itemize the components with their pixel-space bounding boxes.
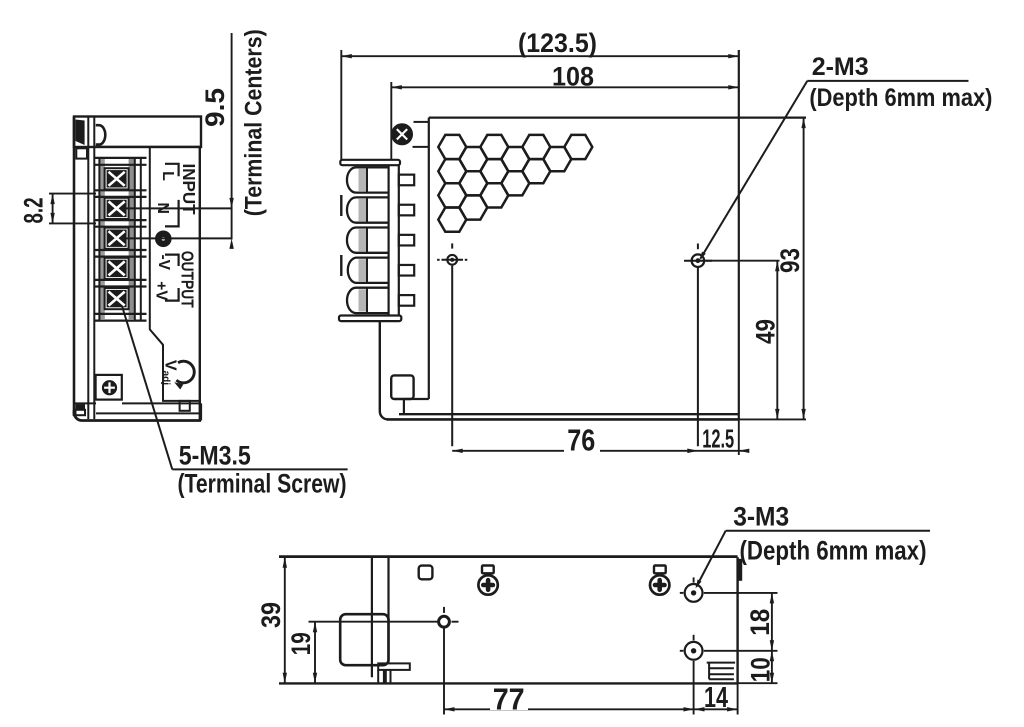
- front view top cap bottom edge: [94, 146, 201, 148]
- bottom view small D hole: [419, 566, 433, 580]
- svg-text:OUTPUT: OUTPUT: [178, 251, 198, 308]
- bottom view screw 2 tab: [654, 566, 666, 574]
- svg-text:(Terminal Centers): (Terminal Centers): [240, 29, 267, 216]
- dimension 19 line: [313, 622, 317, 684]
- dimension 10 line: [770, 651, 774, 683]
- terminal barrel 4 (side view): [348, 258, 389, 283]
- bottom view bottom-right mounting hole (M3): [680, 635, 778, 715]
- dimension text 76: [564, 426, 600, 453]
- block base verticals: [388, 165, 390, 316]
- front view small box under clip: [76, 148, 87, 158]
- bottom view screw 1: [478, 575, 497, 594]
- bracket for L: [165, 164, 179, 176]
- vent hexagon col4 row1: [501, 147, 529, 171]
- bottom view hatched vent slot: [707, 663, 735, 680]
- svg-text:76: 76: [567, 422, 595, 457]
- front label plate outline: [150, 148, 200, 401]
- honeycomb vent pattern: [438, 135, 592, 232]
- terminal block bottom plate: [94, 313, 146, 315]
- svg-text:9.5: 9.5: [200, 88, 230, 127]
- terminal block (bottom view): [340, 614, 388, 665]
- Vadj rotary arrow: [174, 361, 194, 389]
- terminal screw tab 1 (side view): [399, 175, 414, 186]
- side view right mounting hole (M3): [684, 244, 712, 447]
- dimension (123.5) line: [341, 54, 739, 58]
- terminal block top plate: [94, 157, 146, 159]
- bottom view cover left edge: [387, 557, 389, 663]
- dimension 14 line: [694, 707, 738, 711]
- bottom view chassis left edge: [371, 557, 373, 677]
- terminal screw tab 5 (side view): [399, 295, 414, 306]
- terminal block (front view): [94, 158, 146, 321]
- block bottom plate: [339, 316, 401, 322]
- svg-text:5-M3.5: 5-M3.5: [179, 441, 251, 471]
- front view bottom cap: [74, 403, 201, 420]
- callout 3-M3 underline: [726, 530, 930, 532]
- vent hexagon col7 row1: [564, 135, 592, 159]
- callout 2-M3 leader to hole: [699, 81, 807, 261]
- side view chassis outer left edge with round corner: [380, 321, 388, 419]
- vent hexagon col5 row2: [522, 159, 550, 183]
- terminal rail 4: [94, 279, 146, 281]
- dimension 93 line: [801, 118, 805, 420]
- side view small square knockout: [391, 375, 413, 399]
- dimension 39 line: [283, 557, 287, 683]
- dimension 108 extension line: [390, 82, 392, 160]
- vent hexagon col1 row1: [438, 135, 466, 159]
- vent hexagon col2 row2: [459, 171, 487, 195]
- terminal screw 5 (M3.5): [105, 288, 129, 309]
- dimension 49 extension line: [706, 260, 780, 262]
- dimension 19 extension line: [309, 621, 439, 623]
- terminal barrel 2 (side view): [347, 197, 389, 222]
- side view corner screw: [392, 122, 429, 147]
- leader line from terminal N to 9.5 dimension: [120, 207, 232, 209]
- vent hexagon col4 row2: [501, 171, 529, 195]
- svg-text:INPUT: INPUT: [179, 164, 199, 215]
- svg-text:(123.5): (123.5): [518, 28, 597, 58]
- vent hexagon col3 row1: [480, 135, 508, 159]
- svg-text:8.2: 8.2: [19, 198, 49, 224]
- dimension 12.5 extension (right edge): [738, 419, 740, 455]
- svg-text:(Depth 6mm max): (Depth 6mm max): [740, 536, 927, 566]
- front view right edge: [199, 147, 201, 422]
- vent hexagon col6 row1: [543, 147, 571, 171]
- dimension 12.5 line: [687, 449, 749, 453]
- terminal screw 3 (M3.5): [105, 228, 129, 249]
- leader line for 5-M3.5 terminal screw callout: [122, 306, 172, 469]
- earth ground symbol: [156, 232, 171, 247]
- bottom view top-right corner flange (thick): [738, 559, 743, 581]
- dimension text 12.5: [703, 429, 734, 449]
- svg-text:10: 10: [746, 657, 776, 682]
- side view right edge + top dim extension: [738, 50, 740, 419]
- svg-text:(Depth 6mm max): (Depth 6mm max): [809, 84, 992, 112]
- callout underline: [172, 468, 347, 470]
- terminal rail 3: [94, 249, 146, 251]
- vent hexagon col3 row2: [480, 159, 508, 183]
- svg-text:18: 18: [745, 609, 775, 636]
- side view bottom dim extension to 93/49: [739, 418, 806, 420]
- bottom view: case outline: [279, 557, 778, 715]
- svg-text:14: 14: [704, 682, 728, 714]
- terminal barrel 3 (side view): [347, 228, 389, 253]
- vent hexagon col1 row2: [438, 159, 466, 183]
- bottom view screw 1 tab: [482, 566, 494, 574]
- vent hexagon col1 row3: [438, 183, 466, 207]
- front view top cap: [74, 117, 201, 148]
- dimension 9.5 line with arrows: [229, 33, 233, 249]
- front view left chassis wall (double line): [87, 117, 89, 419]
- side view bottom inner fold line: [399, 413, 739, 415]
- front view: power supply end panel: [74, 117, 201, 422]
- terminal screw tab 4 (side view): [399, 265, 414, 276]
- dimension 8.2 line with arrows: [50, 194, 54, 224]
- block hidden left edge dashes: [340, 195, 342, 216]
- dimension 8.2 leader lines: [49, 193, 96, 195]
- bottom view foot bar: [378, 663, 410, 682]
- svg-text:2-M3: 2-M3: [812, 53, 869, 81]
- side view bottom edge: [387, 418, 739, 421]
- dimension text 77: [490, 686, 528, 710]
- bottom view bottom edge + extensions: [279, 682, 738, 684]
- vent hexagon col5 row1: [522, 135, 550, 159]
- dimension 77 line: [444, 707, 694, 711]
- terminal rail 2: [94, 219, 146, 221]
- terminal barrel 5 (side view): [347, 288, 389, 313]
- svg-text:(Terminal Screw): (Terminal Screw): [178, 469, 347, 499]
- side view: case outline: [380, 50, 806, 419]
- terminal rail 1: [94, 189, 146, 191]
- svg-text:39: 39: [256, 602, 286, 628]
- side view left mounting hole (M3): [437, 243, 467, 446]
- bracket for +V: [165, 288, 179, 301]
- bottom view left mounting hole (M3): [439, 607, 459, 715]
- side view bottom-left step: [404, 398, 429, 400]
- terminal screw tab 3 (side view): [399, 235, 414, 246]
- terminal barrel 1 (side view): [347, 167, 389, 192]
- dimension 18 line: [770, 593, 774, 651]
- vent hexagon col2 row1: [459, 147, 487, 171]
- dimension 108 line: [391, 85, 739, 89]
- front panel mounting screw (bottom): [96, 375, 122, 400]
- svg-text:49: 49: [751, 319, 781, 344]
- front view top-left black clip: [76, 120, 85, 146]
- side view cover left edge: [428, 118, 430, 399]
- vent hexagon col3 row3: [480, 183, 508, 207]
- front view D-shaped tab at top: [96, 125, 105, 144]
- terminal block gray side strips: [99, 159, 104, 319]
- svg-text:93: 93: [775, 248, 805, 273]
- dimension 49 line: [775, 261, 779, 420]
- dimension (123.5) extension line: [340, 50, 342, 160]
- bottom view top edge + 39 extension: [279, 555, 738, 558]
- vent hexagon col1 row4: [438, 208, 466, 232]
- bottom view screw 2: [650, 575, 669, 594]
- terminal block (side view): [339, 160, 414, 321]
- side view top edge + 93 extension: [429, 116, 806, 118]
- svg-text:-V: -V: [155, 254, 172, 270]
- vent hexagon col2 row3: [459, 195, 487, 219]
- terminal block frame verticals: [98, 158, 100, 320]
- Vadj label: [161, 360, 179, 385]
- block top plate: [340, 160, 400, 165]
- svg-text:3-M3: 3-M3: [733, 502, 789, 532]
- terminal screw 2 (M3.5): [105, 198, 129, 219]
- svg-text:12.5: 12.5: [702, 424, 734, 454]
- terminal screw 1 (M3.5): [105, 168, 129, 189]
- terminal screw 4 (M3.5): [105, 258, 129, 279]
- callout 2-M3 underline: [807, 80, 968, 82]
- bracket for -V: [165, 255, 179, 266]
- callout 3-M3 leader: [696, 531, 726, 589]
- bottom view right edge + 14 extension: [736, 557, 738, 683]
- label plate bottom notch: [180, 401, 190, 411]
- terminal screw tab 2 (side view): [399, 205, 414, 216]
- svg-text:77: 77: [493, 681, 525, 716]
- dimension 76 line: [452, 449, 698, 453]
- leader line from ground terminal to 9.5 dimension: [120, 237, 232, 239]
- svg-text:L: L: [159, 171, 176, 181]
- bottom view top-right mounting hole (M3): [680, 577, 778, 601]
- svg-text:108: 108: [552, 62, 594, 92]
- front view left outer edge: [73, 117, 76, 417]
- bracket for N: [165, 200, 179, 227]
- svg-text:19: 19: [286, 632, 316, 655]
- svg-text:+V: +V: [152, 281, 169, 301]
